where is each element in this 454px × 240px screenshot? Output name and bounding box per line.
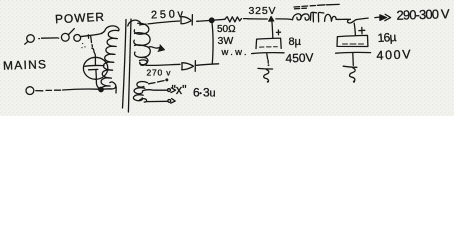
svg-text:450V: 450V [285, 50, 313, 65]
svg-text:3W: 3W [218, 35, 234, 47]
wire [81, 31, 105, 37]
node junction rectifier [209, 18, 214, 23]
wire [214, 18, 225, 21]
svg-text:"x": "x" [172, 83, 187, 97]
transformer core [123, 20, 127, 109]
wire heater bottom [140, 99, 147, 102]
wire [63, 88, 99, 91]
arrow output [375, 16, 380, 19]
svg-text:325V: 325V [249, 5, 276, 17]
diode D1 [181, 17, 191, 24]
wire 270v lead [140, 60, 148, 65]
terminal bottom mains [26, 87, 34, 95]
wire [96, 70, 101, 90]
wire [356, 18, 368, 20]
label plus [276, 30, 280, 35]
wire hook [103, 82, 116, 89]
wire [267, 54, 269, 63]
svg-text:MAINS: MAINS [3, 57, 46, 72]
wire heater top [143, 90, 168, 91]
svg-text:16µ: 16µ [377, 30, 397, 45]
node junction [99, 87, 103, 91]
speck dots [82, 44, 85, 48]
wire [276, 18, 292, 21]
svg-text:8µ: 8µ [289, 36, 302, 48]
terminal top mains [27, 35, 35, 43]
choke L1 [293, 14, 302, 20]
svg-text:6: 6 [193, 86, 200, 100]
svg-text:u: u [210, 88, 216, 100]
transformer T1 heater winding [137, 82, 148, 88]
lamp V1 [83, 57, 107, 79]
wire cap2 lead [354, 23, 355, 35]
diode D2 [182, 63, 194, 70]
svg-text:270 v: 270 v [147, 67, 172, 77]
resistor R1 50 ohm [225, 17, 247, 22]
svg-text:50Ω: 50Ω [217, 24, 236, 35]
wire dashed [36, 89, 61, 92]
transformer T1 primary [101, 26, 119, 90]
svg-text:290-300 V: 290-300 V [396, 6, 450, 22]
switch S1 [58, 38, 59, 39]
label plus [359, 27, 365, 33]
ground [343, 66, 357, 67]
transformer T1 HT secondary [128, 20, 141, 26]
wire [197, 64, 219, 66]
wire heater tap dashed [149, 81, 165, 84]
svg-text:400V: 400V [376, 47, 411, 62]
capacitor C2 16uF [337, 35, 368, 46]
wire 250v lead [141, 21, 180, 25]
svg-text:POWER: POWER [55, 10, 105, 27]
wire [197, 20, 210, 23]
wire lamp drop [88, 35, 95, 65]
wire connector vertical [212, 23, 213, 64]
transformer CT arrow [149, 47, 161, 48]
node 325V arrow [269, 16, 274, 21]
choke L1 core dashes [294, 4, 339, 7]
wire [336, 18, 350, 20]
node junction curl [347, 19, 356, 23]
wire [352, 53, 355, 65]
wire [39, 37, 58, 40]
wire [248, 18, 268, 20]
ground [258, 67, 273, 70]
capacitor C1 8uF [256, 38, 281, 49]
